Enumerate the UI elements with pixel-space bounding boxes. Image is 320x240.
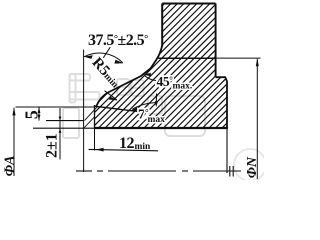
svg-text:2±1: 2±1 (43, 133, 60, 158)
centerline (76, 170, 241, 172)
7max label + leader (130, 94, 158, 111)
svg-text:ΦN: ΦN (245, 156, 260, 178)
bottom bore line thick (95, 127, 228, 129)
watermark (63, 74, 266, 181)
corner extension + ticks (227, 129, 233, 177)
svg-text:12: 12 (119, 135, 135, 152)
dimension: phi N (256, 58, 259, 179)
hub top (162, 3, 215, 5)
hub left (161, 4, 163, 47)
dimension: 12min (89, 148, 159, 152)
bottom line thin left extension (33, 127, 95, 129)
OD line (158, 57, 215, 59)
line1 (16, 106, 95, 108)
dimension: phi A (12, 107, 15, 176)
svg-text:R5min: R5min (89, 55, 124, 92)
svg-text:max: max (148, 115, 166, 125)
dimension: 5 (38, 107, 41, 121)
line A (end-face reference, long thin) (83, 50, 85, 173)
small hatch bits in strip between lines A and B (84, 107, 97, 128)
svg-text:45°: 45° (157, 74, 174, 89)
svg-text:ΦA: ΦA (2, 155, 18, 176)
svg-text:5: 5 (22, 110, 42, 119)
hub right (215, 4, 217, 78)
profile outline (thick) (16, 4, 261, 173)
svg-text:37.5°±2.5°: 37.5°±2.5° (88, 32, 148, 49)
line2 (46, 120, 84, 122)
root face line B (94, 105, 96, 128)
bevel (96, 46, 162, 107)
svg-text:max.: max. (173, 82, 193, 92)
svg-text:min: min (135, 142, 152, 152)
taper 7deg (95, 106, 147, 112)
step + chamfer + right edge (216, 77, 227, 128)
dimension: 2±1 (59, 108, 62, 160)
